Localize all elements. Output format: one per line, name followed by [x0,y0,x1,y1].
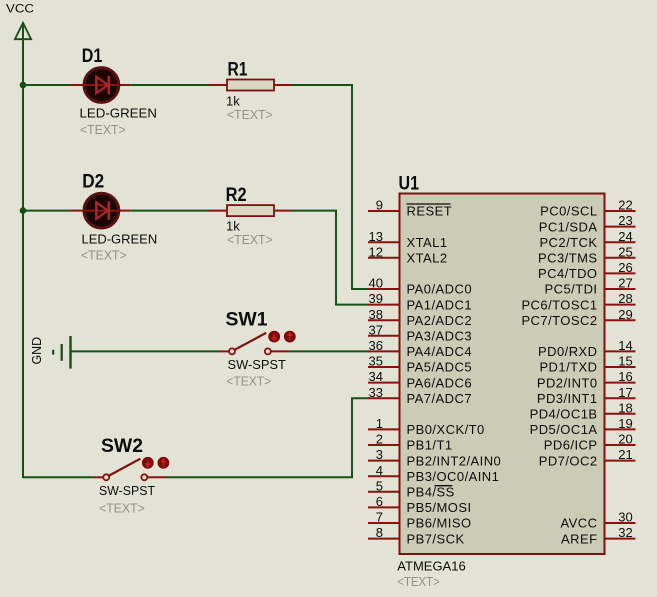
svg-text:PA5/ADC5: PA5/ADC5 [407,360,473,375]
svg-text:40: 40 [369,276,383,291]
svg-text:ATMEGA16: ATMEGA16 [397,559,465,574]
svg-text:SW2: SW2 [101,436,143,457]
U1 pin 40 (PA0/ADC0) stub + number [368,276,472,297]
U1 pin 13 (XTAL1) stub + number [368,229,448,250]
svg-text:29: 29 [618,307,632,322]
svg-text:6: 6 [376,494,383,509]
svg-text:2: 2 [376,432,383,447]
svg-text:24: 24 [618,229,632,244]
svg-text:13: 13 [369,229,383,244]
svg-text:PC3/TMS: PC3/TMS [538,251,598,266]
U1 pin 5 (PB4/SS) stub + number [368,478,455,499]
U1 pin 14 (PD0/RXD) stub + number [538,338,636,359]
U1 pin 23 (PC1/SDA) stub + number [539,213,636,234]
U1 pin 6 (PB5/MOSI) stub + number [368,494,472,515]
U1 pin 25 (PC3/TMS) stub + number [538,244,636,265]
svg-text:D2: D2 [82,171,104,192]
svg-text:PA6/ADC6: PA6/ADC6 [407,375,473,390]
U1 pin 4 (PB3/OC0/AIN1) stub + number [368,463,499,484]
resistor R1 1k [209,60,292,122]
svg-text:<TEXT>: <TEXT> [397,574,440,589]
svg-text:PC5/TDI: PC5/TDI [545,282,598,297]
microcontroller U1 ATMEGA16 body [400,194,605,555]
U1 pin 8 (PB7/SCK) stub + number [368,525,465,546]
svg-text:25: 25 [618,244,632,259]
wire R2 to U1 pin 39 (PA1/ADC1) [291,211,369,305]
svg-text:PD2/INT0: PD2/INT0 [537,375,598,390]
svg-text:9: 9 [376,198,383,213]
svg-text:36: 36 [369,338,383,353]
junction node at D1 row [20,82,27,89]
svg-text:GND: GND [29,337,44,365]
svg-text:17: 17 [618,385,632,400]
U1 pin 7 (PB6/MISO) stub + number [368,510,472,531]
U1 pin 18 (PD4/OC1B) stub + number [530,400,636,421]
svg-text:PB1/T1: PB1/T1 [407,438,453,453]
svg-text:PA0/ADC0: PA0/ADC0 [407,282,473,297]
wire D2 cathode to R2 [130,210,208,212]
U1 pin 29 (PC7/TOSC2) stub + number [521,307,635,328]
svg-text:SW-SPST: SW-SPST [99,483,155,498]
svg-text:27: 27 [618,276,632,291]
svg-text:28: 28 [618,291,632,306]
wire R1 to U1 pin 40 (PA0/ADC0) [291,85,369,289]
U1 pin 1 (PB0/XCK/T0) stub + number [368,416,485,437]
svg-text:PB7/SCK: PB7/SCK [407,531,465,546]
svg-text:20: 20 [618,432,632,447]
svg-text:PA7/ADC7: PA7/ADC7 [407,391,473,406]
svg-text:PC6/TOSC1: PC6/TOSC1 [521,297,597,312]
svg-text:5: 5 [376,478,383,493]
U1 pin 34 (PA6/ADC6) stub + number [368,369,472,390]
svg-text:PC0/SCL: PC0/SCL [540,204,597,219]
U1 pin 30 (AVCC) stub + number [561,510,636,531]
svg-text:PD4/OC1B: PD4/OC1B [530,407,598,422]
SS active-low overline (pin 5 PB4) [435,485,453,487]
svg-text:19: 19 [618,416,632,431]
svg-text:VCC: VCC [6,2,34,16]
svg-text:PC2/TCK: PC2/TCK [539,235,597,250]
svg-text:D1: D1 [82,46,103,67]
svg-text:PD6/ICP: PD6/ICP [544,438,598,453]
LED D1 [71,46,158,137]
svg-text:R1: R1 [228,60,248,81]
svg-text:LED-GREEN: LED-GREEN [82,231,158,246]
svg-text:32: 32 [618,525,632,540]
svg-text:26: 26 [618,260,632,275]
power symbol VCC [6,2,34,40]
svg-text:<TEXT>: <TEXT> [80,122,126,137]
switch SW2 SW-SPST [93,436,169,515]
U1 pin 17 (PD3/INT1) stub + number [537,385,636,406]
U1 pin 33 (PA7/ADC7) stub + number [368,385,472,406]
svg-text:15: 15 [618,354,632,369]
wire VCC rail vertical + bottom horizontal to SW2 [23,24,93,477]
U1 pin 15 (PD1/TXD) stub + number [539,354,635,375]
U1 pin 20 (PD6/ICP) stub + number [544,432,636,453]
svg-text:AREF: AREF [561,531,597,546]
svg-text:4: 4 [376,463,383,478]
U1 pin 32 (AREF) stub + number [561,525,635,546]
svg-text:PC4/TDO: PC4/TDO [538,266,598,281]
wire VCC junction to D1 anode [23,84,71,86]
svg-text:37: 37 [369,322,383,337]
U1 pin 19 (PD5/OC1A) stub + number [530,416,636,437]
svg-text:<TEXT>: <TEXT> [227,107,273,122]
svg-text:PB0/XCK/T0: PB0/XCK/T0 [407,422,485,437]
svg-text:33: 33 [369,385,383,400]
svg-text:SW1: SW1 [226,310,268,331]
svg-text:PD1/TXD: PD1/TXD [539,360,597,375]
wire VCC junction to D2 anode [23,210,71,212]
svg-text:PA3/ADC3: PA3/ADC3 [407,329,473,344]
svg-text:<TEXT>: <TEXT> [227,232,273,247]
svg-text:R2: R2 [226,185,247,206]
svg-text:SW-SPST: SW-SPST [228,357,286,372]
svg-text:XTAL1: XTAL1 [407,235,448,250]
svg-text:PC7/TOSC2: PC7/TOSC2 [521,313,597,328]
svg-text:RESET: RESET [407,204,453,219]
U1 pin 3 (PB2/INT2/AIN0) stub + number [368,447,501,468]
svg-text:PD0/RXD: PD0/RXD [538,344,598,359]
svg-text:PA1/ADC1: PA1/ADC1 [407,297,473,312]
svg-text:PB6/MISO: PB6/MISO [407,516,472,531]
svg-text:PC1/SDA: PC1/SDA [539,219,598,234]
wire SW1 to U1 pin 36 (PA4/ADC4) [290,350,369,352]
U1 pin 9 (RESET) stub + number [368,198,452,219]
svg-text:PB4/SS: PB4/SS [407,485,455,500]
svg-text:XTAL2: XTAL2 [407,251,448,266]
wire D1 cathode to R1 [130,84,208,86]
svg-text:22: 22 [618,198,632,213]
svg-text:LED-GREEN: LED-GREEN [80,105,158,120]
resistor R2 1k [209,185,292,247]
wire SW2 to U1 pin 33 (PA7/ADC7) [165,398,369,477]
U1 pin 21 (PD7/OC2) stub + number [539,447,636,468]
svg-text:<TEXT>: <TEXT> [226,374,271,389]
U1 pin 16 (PD2/INT0) stub + number [537,369,636,390]
ground symbol GND [29,336,71,369]
svg-text:PD5/OC1A: PD5/OC1A [530,422,598,437]
svg-text:U1: U1 [399,174,420,195]
U1 pin 35 (PA5/ADC5) stub + number [368,354,472,375]
U1 pin 39 (PA1/ADC1) stub + number [368,291,472,312]
U1 pin 24 (PC2/TCK) stub + number [539,229,635,250]
svg-text:<TEXT>: <TEXT> [99,500,145,515]
U1 pin 27 (PC5/TDI) stub + number [545,276,636,297]
U1 pin 12 (XTAL2) stub + number [368,244,448,265]
svg-text:39: 39 [369,291,383,306]
svg-text:21: 21 [618,447,632,462]
svg-text:30: 30 [618,510,632,525]
svg-text:8: 8 [376,525,383,540]
svg-text:1: 1 [376,416,383,431]
svg-text:16: 16 [618,369,632,384]
svg-text:14: 14 [618,338,632,353]
U1 pin 26 (PC4/TDO) stub + number [538,260,636,281]
svg-text:PD3/INT1: PD3/INT1 [537,391,598,406]
junction node at D2 row [20,207,27,214]
U1 pin 2 (PB1/T1) stub + number [368,432,453,453]
svg-text:PA4/ADC4: PA4/ADC4 [407,344,473,359]
svg-text:18: 18 [618,400,632,415]
U1 pin 36 (PA4/ADC4) stub + number [368,338,472,359]
svg-text:<TEXT>: <TEXT> [81,247,127,262]
svg-text:PB3/OC0/AIN1: PB3/OC0/AIN1 [407,469,500,484]
svg-text:12: 12 [369,244,383,259]
svg-text:AVCC: AVCC [561,516,598,531]
U1 pin 28 (PC6/TOSC1) stub + number [521,291,635,312]
U1 pin 38 (PA2/ADC2) stub + number [368,307,472,328]
svg-text:7: 7 [376,510,383,525]
svg-text:23: 23 [618,213,632,228]
svg-text:PB5/MOSI: PB5/MOSI [407,500,472,515]
U1 pin 37 (PA3/ADC3) stub + number [368,322,472,343]
LED D2 [71,171,158,262]
svg-text:38: 38 [369,307,383,322]
wire GND to SW1 [71,350,221,352]
svg-text:3: 3 [376,447,383,462]
svg-text:PD7/OC2: PD7/OC2 [539,453,598,468]
svg-text:PA2/ADC2: PA2/ADC2 [407,313,473,328]
svg-text:PB2/INT2/AIN0: PB2/INT2/AIN0 [407,453,502,468]
RESET active-low overline [407,203,451,205]
U1 pin 22 (PC0/SCL) stub + number [540,198,635,219]
svg-text:35: 35 [369,354,383,369]
svg-text:34: 34 [369,369,383,384]
switch SW1 SW-SPST [220,310,296,389]
